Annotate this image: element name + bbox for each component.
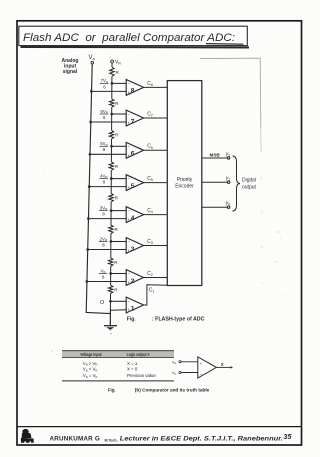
op-amp comparator (fig b) bbox=[172, 357, 233, 378]
label y2 bbox=[210, 151, 231, 157]
resistor R7 bbox=[109, 258, 119, 267]
wire: bus to comparator 1 minus input (step) bbox=[110, 310, 126, 314]
title box bbox=[19, 26, 249, 47]
op-amp comparator 7 bbox=[126, 110, 143, 126]
truth table bbox=[62, 351, 174, 381]
label VR/8 bbox=[99, 268, 108, 279]
resistor R4 bbox=[109, 162, 119, 171]
op-amp comparator 3 bbox=[126, 238, 143, 254]
footer separator bbox=[17, 426, 302, 428]
brace for digital output bbox=[233, 156, 241, 211]
svg-text:Va: Va bbox=[89, 55, 96, 61]
wire: comparator output C5 to encoder bbox=[144, 182, 168, 184]
label 6VR/8 bbox=[100, 109, 109, 120]
svg-text:Lecturer in E&CE Dept. S.T.J.I: Lecturer in E&CE Dept. S.T.J.I.T., Raneb… bbox=[120, 435, 283, 442]
svg-text:Va = Vb: Va = Vb bbox=[83, 373, 98, 379]
label y0 bbox=[225, 201, 231, 207]
wire: bus branch to comparator 6 plus input bbox=[89, 153, 127, 156]
footer name bbox=[50, 435, 284, 442]
svg-text:signal: signal bbox=[63, 69, 78, 75]
label 2VR/8 bbox=[99, 236, 108, 247]
priority encoder U1 bbox=[167, 81, 202, 286]
table row bbox=[83, 367, 138, 373]
svg-text:Digital: Digital bbox=[242, 177, 256, 183]
wire: encoder output y1 bbox=[202, 181, 230, 183]
svg-text:Encoder: Encoder bbox=[175, 184, 194, 190]
footer logo bbox=[21, 429, 34, 443]
resistor R8 bbox=[108, 285, 118, 293]
ground bbox=[104, 314, 117, 335]
resistor R1 bbox=[110, 67, 120, 77]
op-amp comparator 4 bbox=[126, 207, 143, 223]
node VR reference terminal bbox=[111, 60, 122, 66]
label C7 bbox=[147, 111, 153, 117]
wire: comparator output C2 to encoder bbox=[144, 277, 168, 279]
op-amp comparator 1 bbox=[126, 297, 143, 313]
op-amp comparator 2 bbox=[126, 270, 143, 286]
node tap V/8 + wire to comparator 2 bbox=[109, 272, 126, 275]
svg-text:X = 0: X = 0 bbox=[127, 367, 138, 372]
faint specks bbox=[43, 171, 285, 354]
node tap 5V/8 + wire to comparator 6 bbox=[110, 145, 126, 148]
label 0 (ground tap) bbox=[100, 300, 104, 306]
resistor R2 bbox=[110, 99, 120, 108]
resistor R5 bbox=[109, 193, 119, 202]
svg-text:ARUNKUMAR G: ARUNKUMAR G bbox=[50, 435, 100, 442]
svg-text:: FLASH-type of ADC: : FLASH-type of ADC bbox=[152, 316, 205, 322]
node tap 0/8 + wire to comparator 1 bbox=[109, 300, 126, 303]
svg-text:Flash ADC or parallel Compar: Flash ADC or parallel Comparator ADC: bbox=[23, 32, 235, 44]
svg-text:Fig.: Fig. bbox=[108, 387, 116, 392]
op-amp comparator 5 bbox=[126, 175, 143, 191]
resistor R6 bbox=[109, 225, 119, 234]
svg-text:4: 4 bbox=[131, 215, 135, 222]
svg-text:(b) Comparator and its truth t: (b) Comparator and its truth table bbox=[135, 387, 210, 392]
svg-text:35: 35 bbox=[283, 432, 292, 441]
svg-text:Priority: Priority bbox=[177, 177, 193, 183]
table row bbox=[83, 361, 138, 367]
label digital output bbox=[242, 177, 257, 190]
svg-text:Vb: Vb bbox=[172, 371, 177, 376]
analog input signal label bbox=[62, 58, 79, 75]
label C6 bbox=[147, 144, 153, 150]
svg-text:M.Tech,: M.Tech, bbox=[105, 438, 118, 442]
wire: bus branch to comparator 2 plus input bbox=[86, 280, 127, 283]
wire: comparator output C7 to encoder bbox=[144, 117, 168, 119]
op-amp comparator 8 bbox=[126, 80, 143, 96]
svg-text:5: 5 bbox=[131, 183, 135, 190]
label C2 bbox=[147, 271, 153, 277]
label 3VR/8 bbox=[99, 205, 108, 216]
label C8 bbox=[147, 81, 153, 87]
underline under ADC: bbox=[206, 43, 244, 46]
svg-text:2: 2 bbox=[131, 278, 135, 285]
label 7VR/8 bbox=[100, 78, 109, 89]
wire: comparator output C6 to encoder bbox=[144, 149, 168, 151]
svg-text:MSB: MSB bbox=[210, 153, 221, 158]
wire: comparator output C1 to encoder bottom bbox=[144, 285, 168, 305]
svg-text:Previous value: Previous value bbox=[127, 373, 156, 378]
wire: encoder output y2 bbox=[202, 157, 230, 159]
node tap 2V/8 + wire to comparator 3 bbox=[110, 240, 127, 243]
wire: bus branch to comparator 7 plus input bbox=[89, 121, 126, 124]
svg-text:X: X bbox=[221, 362, 224, 367]
wire: bus branch to comparator 3 plus input bbox=[86, 248, 126, 251]
wire: comparator output C3 to encoder bbox=[144, 245, 168, 247]
wire: comparator output C4 to encoder bbox=[144, 214, 168, 216]
svg-text:3: 3 bbox=[131, 246, 135, 253]
svg-text:output: output bbox=[242, 184, 257, 190]
node tap 4V/8 + wire to comparator 5 bbox=[110, 177, 126, 180]
wire: resistor ladder vertical bbox=[110, 63, 112, 325]
svg-text:8: 8 bbox=[131, 88, 135, 95]
node tap 3V/8 + wire to comparator 4 bbox=[110, 209, 126, 212]
page number 35 bbox=[283, 432, 292, 441]
svg-text:O: O bbox=[100, 300, 104, 306]
wire: bus branch to comparator 4 plus input bbox=[87, 217, 126, 220]
svg-text:6: 6 bbox=[131, 151, 135, 158]
wire: analog input bus vertical bbox=[86, 64, 110, 314]
svg-text:7: 7 bbox=[131, 118, 135, 125]
resistor R3 bbox=[109, 130, 119, 139]
wire: encoder output y0 bbox=[202, 206, 230, 208]
op-amp comparator 6 bbox=[126, 142, 143, 158]
wire: comparator output C8 to encoder bbox=[144, 86, 168, 88]
node Va analog input bbox=[89, 55, 96, 64]
svg-text:Voltage input: Voltage input bbox=[80, 352, 102, 357]
wire: bus branch to comparator 8 plus input bbox=[90, 90, 126, 93]
caption fig b bbox=[108, 387, 210, 392]
label C3 bbox=[147, 239, 153, 245]
label C1 bbox=[149, 288, 155, 294]
faint pencil line remnant bbox=[200, 58, 261, 152]
title text bbox=[23, 32, 235, 44]
label C4 bbox=[147, 208, 153, 214]
node tap 7V/8 + wire to comparator 8 bbox=[111, 82, 127, 85]
svg-text:1: 1 bbox=[131, 305, 135, 312]
label C5 bbox=[147, 176, 153, 182]
svg-text:Logic output X: Logic output X bbox=[127, 352, 150, 357]
table row bbox=[83, 373, 157, 379]
svg-text:Va < Vb: Va < Vb bbox=[83, 367, 98, 373]
label 4VR/8 bbox=[99, 173, 108, 184]
label y1 bbox=[225, 176, 231, 182]
wire: bus branch to comparator 5 plus input bbox=[88, 185, 126, 188]
label 5VR/8 bbox=[100, 141, 109, 152]
node tap 6V/8 + wire to comparator 7 bbox=[110, 113, 126, 116]
svg-text:Va: Va bbox=[172, 361, 177, 366]
svg-text:Fig.: Fig. bbox=[127, 316, 136, 322]
svg-text:X = 1: X = 1 bbox=[127, 361, 138, 366]
caption fig flash adc bbox=[127, 316, 205, 322]
